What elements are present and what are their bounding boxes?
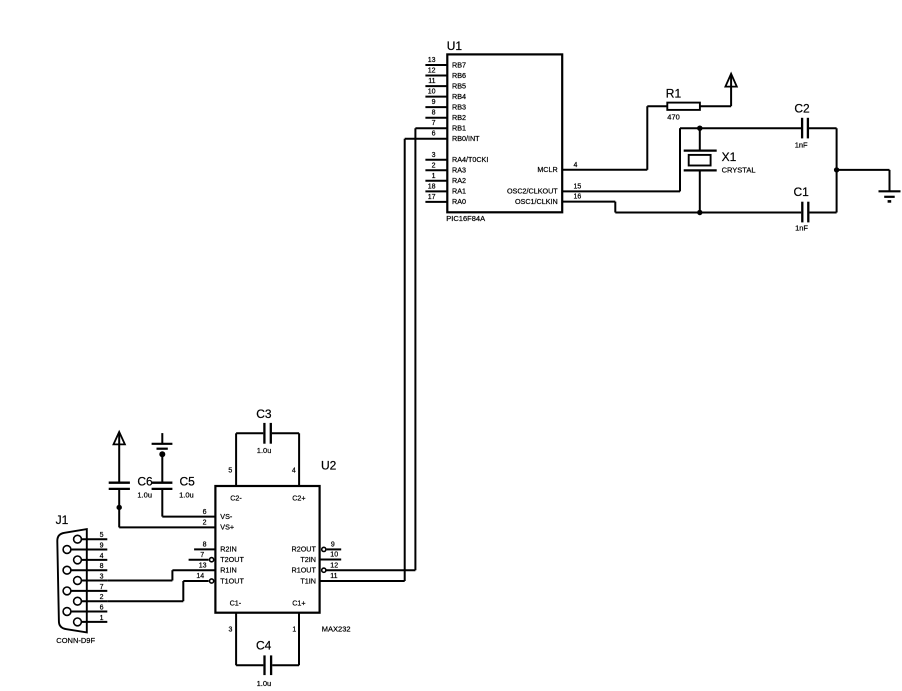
U1 pin 13 RB7 [425, 57, 466, 69]
J1 pin 7 socket circle [63, 587, 71, 595]
U2 pin 9 R2OUT [292, 542, 342, 554]
U1 pin 10 RB4 [425, 89, 466, 101]
J1 pin 5 socket circle [74, 535, 82, 543]
svg-text:OSC1/CLKIN: OSC1/CLKIN [515, 197, 558, 206]
svg-text:RB1: RB1 [452, 124, 466, 133]
svg-text:MCLR: MCLR [537, 165, 557, 174]
node junction below C6 [117, 505, 122, 510]
U1 pin 15 OSC2/CLKOUT [507, 183, 680, 195]
U1 pin 6 RB0/INT [405, 131, 480, 143]
svg-text:R1IN: R1IN [220, 566, 236, 575]
U2 pin 12 bubble [322, 568, 326, 572]
U1 pin 2 RA3 [425, 162, 466, 174]
svg-text:MAX232: MAX232 [322, 625, 351, 634]
wire OSC1 down to bottom rail [614, 202, 616, 213]
connector J1 body (CONN-D9F) [57, 529, 87, 632]
power arrow (VCC) at R1 [725, 74, 736, 87]
svg-text:2: 2 [432, 162, 436, 169]
U2 pin 10 T2IN [300, 552, 341, 564]
capacitor C2 [802, 118, 808, 139]
U2 pin 14 bubble [210, 579, 214, 583]
svg-text:RB5: RB5 [452, 81, 466, 90]
C6 reference label [137, 474, 153, 488]
C2 reference label [794, 101, 810, 115]
U2 pin 7 bubble [210, 558, 214, 562]
J1 pin 6 socket circle [63, 608, 71, 616]
U1 pin 16 OSC1/CLKIN [515, 194, 615, 206]
U1 pin 11 RB5 [425, 78, 466, 90]
capacitor C3 [236, 423, 299, 444]
svg-text:RA0: RA0 [452, 197, 466, 206]
svg-text:7: 7 [200, 552, 204, 559]
wire RB0/INT down to U2 T1IN [320, 139, 405, 581]
svg-text:T1OUT: T1OUT [220, 576, 244, 585]
J1 pin 2 stub [78, 594, 108, 601]
wire RB1 down to U2 R1OUT [327, 128, 416, 570]
C5 reference label [180, 474, 196, 488]
svg-text:R1: R1 [666, 86, 682, 100]
node junction on right rail [834, 167, 839, 172]
svg-text:U2: U2 [321, 459, 337, 473]
J1 pin 8 stub [67, 563, 107, 570]
svg-text:RB4: RB4 [452, 92, 466, 101]
svg-text:2: 2 [100, 594, 104, 601]
C3 value 1.0u [257, 446, 272, 455]
C4 value 1.0u [257, 679, 272, 688]
wire OSC2 up to top oscillator rail [679, 128, 681, 191]
R1 reference label [666, 86, 682, 100]
top oscillator rail wire [680, 127, 837, 129]
U1 pin 12 RB6 [425, 68, 466, 80]
svg-text:R2OUT: R2OUT [292, 545, 317, 554]
svg-text:1nF: 1nF [795, 224, 808, 233]
svg-text:1: 1 [292, 627, 296, 634]
svg-text:3: 3 [228, 627, 232, 634]
svg-text:C2: C2 [794, 101, 810, 115]
svg-text:C1: C1 [794, 185, 810, 199]
svg-text:T2IN: T2IN [300, 555, 316, 564]
svg-text:C2-: C2- [230, 493, 242, 502]
capacitor C6 [109, 483, 130, 528]
svg-text:1.0u: 1.0u [179, 491, 194, 500]
R1 value 470 [667, 113, 680, 122]
ground symbol above C5 [152, 433, 173, 457]
U2 pin 14 T1OUT [183, 573, 244, 585]
X1 reference label [722, 150, 737, 164]
node junction at crystal top [697, 126, 702, 131]
svg-text:VS+: VS+ [220, 523, 234, 532]
U2 internal label C2+ [292, 493, 305, 502]
wire R1 to power arrow [700, 75, 731, 107]
C6 value 1.0u [137, 491, 152, 500]
J1 pin 3 socket circle [74, 577, 82, 585]
svg-text:CONN-D9F: CONN-D9F [56, 636, 95, 645]
svg-text:RB6: RB6 [452, 71, 466, 80]
svg-text:470: 470 [667, 113, 680, 122]
J1 pin 9 stub [67, 543, 107, 550]
svg-text:14: 14 [196, 573, 204, 580]
J1 pin 1 stub [78, 615, 108, 622]
svg-text:5: 5 [100, 532, 104, 539]
IC U2 MAX232 body [215, 486, 319, 613]
U2 internal label C1+ [292, 598, 305, 607]
wire J1 pin 2 to U2 T1OUT [107, 581, 183, 601]
svg-text:T1IN: T1IN [300, 576, 316, 585]
wire J1 pin 3 to U2 R1IN [107, 570, 172, 580]
svg-text:C3: C3 [256, 407, 272, 421]
svg-text:8: 8 [100, 563, 104, 570]
svg-text:1.0u: 1.0u [137, 491, 152, 500]
svg-text:PIC16F84A: PIC16F84A [446, 214, 485, 223]
U2 pin 13 R1IN [172, 562, 236, 574]
svg-text:10: 10 [330, 552, 338, 559]
J1 pin 6 stub [67, 605, 107, 612]
svg-text:VS-: VS- [220, 512, 233, 521]
svg-text:CRYSTAL: CRYSTAL [722, 166, 756, 175]
U2 pin 3 (C1-) bottom [228, 613, 236, 666]
svg-text:X1: X1 [722, 150, 737, 164]
IC U1 PIC16F84A body [447, 54, 562, 212]
svg-text:7: 7 [100, 584, 104, 591]
U1 pin 1 RA2 [425, 173, 466, 185]
svg-text:RA4/T0CKI: RA4/T0CKI [452, 155, 488, 164]
svg-text:1.0u: 1.0u [257, 679, 272, 688]
svg-text:RB0/INT: RB0/INT [452, 134, 480, 143]
U2 internal label C1- [230, 598, 242, 607]
svg-text:C6: C6 [137, 474, 153, 488]
U2 pin 6 VS- [162, 509, 233, 521]
capacitor C4 [236, 655, 299, 675]
ground symbol right [879, 191, 901, 201]
J1 reference label [56, 513, 69, 527]
U2 pin 7 T2OUT [189, 552, 245, 564]
svg-text:C5: C5 [180, 474, 196, 488]
U2 pin 1 (C1+) bottom [292, 613, 299, 666]
svg-text:9: 9 [100, 543, 104, 550]
U1 pin 3 RA4/T0CKI [425, 152, 488, 164]
U1 pin 4 MCLR [537, 162, 647, 174]
J1 pin 2 socket circle [74, 597, 82, 605]
svg-text:17: 17 [428, 194, 436, 201]
svg-text:6: 6 [432, 131, 436, 138]
svg-text:5: 5 [228, 468, 232, 475]
J1 pin 8 socket circle [63, 566, 71, 574]
svg-text:7: 7 [432, 120, 436, 127]
svg-text:1nF: 1nF [795, 140, 808, 149]
J1 pin 9 socket circle [63, 546, 71, 554]
C4 reference label [256, 638, 272, 652]
svg-text:4: 4 [292, 468, 296, 475]
svg-text:9: 9 [432, 99, 436, 106]
U2 pin 9 bubble [322, 547, 326, 551]
svg-text:RA2: RA2 [452, 176, 466, 185]
U2 pin 11 T1IN [300, 573, 337, 585]
power arrow (VCC) above C6 [114, 432, 125, 482]
svg-text:11: 11 [428, 78, 435, 85]
svg-text:6: 6 [100, 605, 104, 612]
svg-text:C1+: C1+ [292, 598, 305, 607]
wire rail to ground [837, 170, 890, 191]
svg-text:1: 1 [100, 615, 104, 622]
J1 pin 4 stub [78, 553, 108, 560]
U1 pin 18 RA1 [425, 183, 466, 195]
svg-text:12: 12 [330, 562, 338, 569]
J1 pin 3 stub [78, 574, 108, 581]
svg-text:C2+: C2+ [292, 493, 305, 502]
svg-text:4: 4 [574, 162, 578, 169]
svg-text:15: 15 [574, 183, 582, 190]
svg-text:13: 13 [428, 57, 436, 64]
svg-text:R1OUT: R1OUT [292, 566, 317, 575]
wire MCLR up to R1 [647, 106, 667, 170]
J1 pin 5 stub [78, 532, 108, 539]
J1 pin 4 socket circle [74, 556, 82, 564]
U1 pin 7 RB1 [415, 120, 466, 132]
U2 pin 8 R2IN [194, 542, 237, 554]
C5 value 1.0u [179, 491, 194, 500]
U1 pin 9 RB3 [425, 99, 466, 111]
X1 value CRYSTAL [722, 166, 756, 175]
svg-text:8: 8 [203, 542, 207, 549]
svg-text:RB3: RB3 [452, 102, 466, 111]
svg-text:1: 1 [432, 173, 436, 180]
svg-text:3: 3 [432, 152, 436, 159]
svg-text:11: 11 [330, 573, 337, 580]
C3 reference label [256, 407, 272, 421]
U1 pin 8 RB2 [425, 110, 466, 122]
svg-text:OSC2/CLKOUT: OSC2/CLKOUT [507, 187, 558, 196]
svg-text:RA1: RA1 [452, 187, 466, 196]
svg-text:RB2: RB2 [452, 113, 466, 122]
C1 value 1nF [795, 224, 808, 233]
U1 reference label [447, 39, 463, 53]
svg-text:10: 10 [428, 89, 436, 96]
crystal X1 [684, 128, 717, 212]
svg-text:R2IN: R2IN [220, 545, 236, 554]
U2 value label MAX232 [322, 625, 351, 634]
C2 value 1nF [795, 140, 808, 149]
svg-text:T2OUT: T2OUT [220, 555, 244, 564]
U2 pin 4 (C2+) top [292, 433, 299, 486]
svg-text:9: 9 [331, 542, 335, 549]
U2 reference label [321, 459, 337, 473]
U2 pin 2 VS+ [119, 520, 234, 532]
svg-text:18: 18 [428, 183, 436, 190]
J1 pin 7 stub [67, 584, 107, 591]
resistor R1 [667, 103, 700, 110]
svg-text:RB7: RB7 [452, 60, 466, 69]
right vertical rail [836, 128, 838, 212]
U1 value label PIC16F84A [446, 214, 485, 223]
capacitor C1 [802, 202, 808, 223]
bottom oscillator rail wire [615, 212, 836, 214]
svg-text:4: 4 [100, 553, 104, 560]
svg-text:J1: J1 [56, 513, 69, 527]
svg-text:C4: C4 [256, 638, 272, 652]
svg-text:U1: U1 [447, 39, 463, 53]
U2 pin 12 R1OUT [292, 562, 339, 574]
svg-text:1.0u: 1.0u [257, 446, 272, 455]
svg-text:6: 6 [203, 509, 207, 516]
capacitor C5 [152, 454, 173, 516]
J1 pin 1 socket circle [74, 618, 82, 626]
svg-text:8: 8 [432, 110, 436, 117]
svg-text:RA3: RA3 [452, 166, 466, 175]
U2 internal label C2- [230, 493, 242, 502]
svg-text:13: 13 [199, 562, 207, 569]
J1 value label CONN-D9F [56, 636, 95, 645]
svg-text:C1-: C1- [230, 598, 242, 607]
node junction at crystal bottom [697, 210, 702, 215]
svg-text:2: 2 [203, 520, 207, 527]
C1 reference label [794, 185, 810, 199]
U1 pin 17 RA0 [425, 194, 466, 206]
svg-text:3: 3 [100, 574, 104, 581]
svg-text:12: 12 [428, 68, 436, 75]
svg-text:16: 16 [574, 194, 582, 201]
U2 pin 5 (C2-) top [228, 433, 236, 486]
